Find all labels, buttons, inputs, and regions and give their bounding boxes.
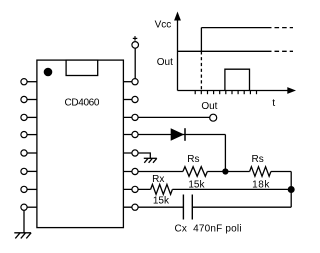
svg-text:Rs: Rs: [187, 154, 199, 165]
svg-text:15k: 15k: [153, 196, 170, 207]
svg-text:Vcc: Vcc: [155, 20, 172, 31]
svg-text:15k: 15k: [188, 180, 205, 191]
svg-text:Out: Out: [157, 57, 173, 68]
svg-text:t: t: [272, 97, 275, 109]
svg-text:Cx 470nF poli: Cx 470nF poli: [175, 223, 242, 234]
svg-text:Rs: Rs: [251, 154, 263, 165]
svg-text:Out: Out: [201, 101, 217, 112]
svg-text:18k: 18k: [252, 180, 270, 191]
svg-text:CD4060: CD4060: [65, 97, 100, 108]
svg-text:Rx: Rx: [152, 174, 164, 185]
